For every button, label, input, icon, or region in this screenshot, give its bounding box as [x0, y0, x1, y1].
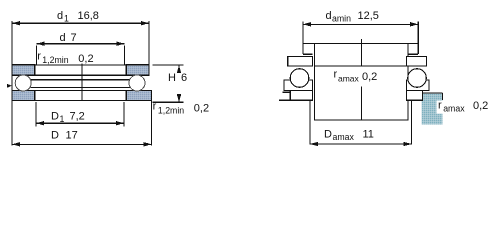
extension line d left: [36, 46, 38, 66]
arrow damin left: [303, 22, 311, 26]
extension line d right: [124, 46, 126, 66]
extension line Damax right: [411, 101, 413, 145]
arrow H top: [177, 65, 181, 73]
svg-text:0,2: 0,2: [362, 71, 377, 83]
cage bottom line: [31, 86, 131, 88]
arrow damin right: [410, 22, 418, 26]
svg-text:amax: amax: [338, 74, 360, 84]
svg-text:D: D: [51, 111, 59, 123]
floor line left outer: [279, 99, 290, 101]
arrow d1 right: [141, 21, 149, 25]
arrow D1 right: [116, 121, 124, 125]
svg-text:12,5: 12,5: [358, 10, 379, 22]
left icon bottom washer: [284, 80, 313, 90]
arrow d right: [117, 42, 125, 46]
dimension line D1: [36, 122, 124, 124]
svg-text:17: 17: [66, 130, 78, 142]
svg-text:amin: amin: [332, 14, 351, 24]
ball left: [15, 75, 31, 91]
svg-text:7: 7: [71, 32, 77, 44]
left figure outer edge / extension line left: [11, 21, 13, 146]
svg-text:0,2: 0,2: [194, 103, 209, 115]
dimension line Damax: [310, 143, 412, 145]
svg-text:H: H: [168, 72, 176, 84]
dimension line D: [12, 143, 152, 145]
arrow Damax right: [404, 142, 412, 146]
right icon bottom washer: [406, 80, 429, 90]
svg-text:1,2min: 1,2min: [158, 105, 184, 115]
arrow d left: [37, 42, 45, 46]
svg-text:D: D: [51, 130, 59, 142]
svg-text:16,8: 16,8: [78, 10, 99, 22]
washer1 left hatch box: [12, 65, 35, 75]
teal block left edge: [421, 93, 423, 100]
arrow D right: [144, 142, 152, 146]
svg-text:6: 6: [181, 72, 187, 84]
shoulder top line: [302, 43, 418, 45]
washer2 right hatch box: [126, 90, 151, 100]
svg-text:1: 1: [60, 114, 65, 124]
svg-text:d: d: [57, 10, 63, 22]
svg-text:d: d: [326, 10, 332, 22]
arrow Damax left: [310, 142, 318, 146]
svg-text:r: r: [153, 101, 157, 113]
shoulder bottom left: [303, 53, 313, 55]
svg-text:11: 11: [363, 129, 374, 141]
shoulder bottom right: [408, 53, 418, 55]
extension line D right: [151, 90, 153, 145]
svg-text:r: r: [334, 69, 338, 81]
shaft end face line: [315, 65, 408, 67]
washer2 top edge line: [12, 89, 152, 91]
svg-text:1,2min: 1,2min: [42, 55, 68, 65]
svg-text:0,2: 0,2: [473, 100, 488, 112]
arrow D left: [12, 142, 20, 146]
svg-text:r: r: [37, 51, 41, 63]
dimension line damin: [303, 23, 418, 25]
H dimension line top tail: [178, 65, 180, 73]
svg-text:amax: amax: [333, 132, 355, 142]
H dimension line bottom tail: [178, 95, 180, 103]
washer2 bottom edge line: [12, 99, 152, 101]
teal block right edge top: [442, 93, 444, 100]
right icon top washer: [406, 56, 426, 65]
right icon pedestal: [406, 91, 422, 101]
svg-text:0,2: 0,2: [78, 53, 93, 65]
arrow H bottom: [177, 94, 181, 102]
extension line d1 right: [148, 21, 150, 75]
H extension top: [153, 64, 184, 66]
washer2 left hatch box: [12, 90, 35, 100]
right icon ball: [408, 69, 427, 88]
svg-text:amax: amax: [443, 104, 465, 114]
recess floor line left: [283, 91, 291, 93]
white box behind right ramax label: [437, 101, 468, 114]
ball right: [129, 75, 145, 91]
cage top line: [31, 79, 131, 81]
dimension line d: [37, 43, 125, 45]
axis line right figure upper: [360, 39, 362, 66]
extension line D1 right: [123, 102, 125, 126]
extension line Damax left: [309, 101, 311, 145]
extension line damin right / shoulder edge: [417, 22, 419, 55]
washer top edge line: [12, 64, 149, 66]
axis line left figure: [81, 64, 83, 101]
arrow d1 left: [12, 21, 20, 25]
svg-text:7,2: 7,2: [70, 111, 85, 123]
extension line damin left / shoulder edge: [302, 22, 304, 55]
teal block top edge: [423, 92, 443, 94]
small r arrow at left edge: [7, 84, 12, 88]
svg-text:D: D: [324, 129, 332, 141]
left icon pedestal: [290, 91, 312, 101]
washer1 bottom edge line: [12, 74, 149, 76]
svg-text:r: r: [438, 99, 442, 111]
axis line right figure lower: [360, 87, 362, 120]
svg-text:d: d: [60, 32, 66, 44]
dimension line d1: [12, 22, 149, 24]
washer1 right hatch box: [126, 65, 149, 75]
extension line D1 left: [35, 102, 37, 126]
central rect (shaft/housing): [315, 44, 408, 120]
H extension bottom: [153, 101, 184, 103]
svg-text:1: 1: [64, 13, 69, 23]
arrow D1 left: [36, 121, 44, 125]
left icon top washer: [288, 56, 313, 65]
left icon ball: [290, 69, 309, 88]
teal housing block: [422, 93, 443, 125]
